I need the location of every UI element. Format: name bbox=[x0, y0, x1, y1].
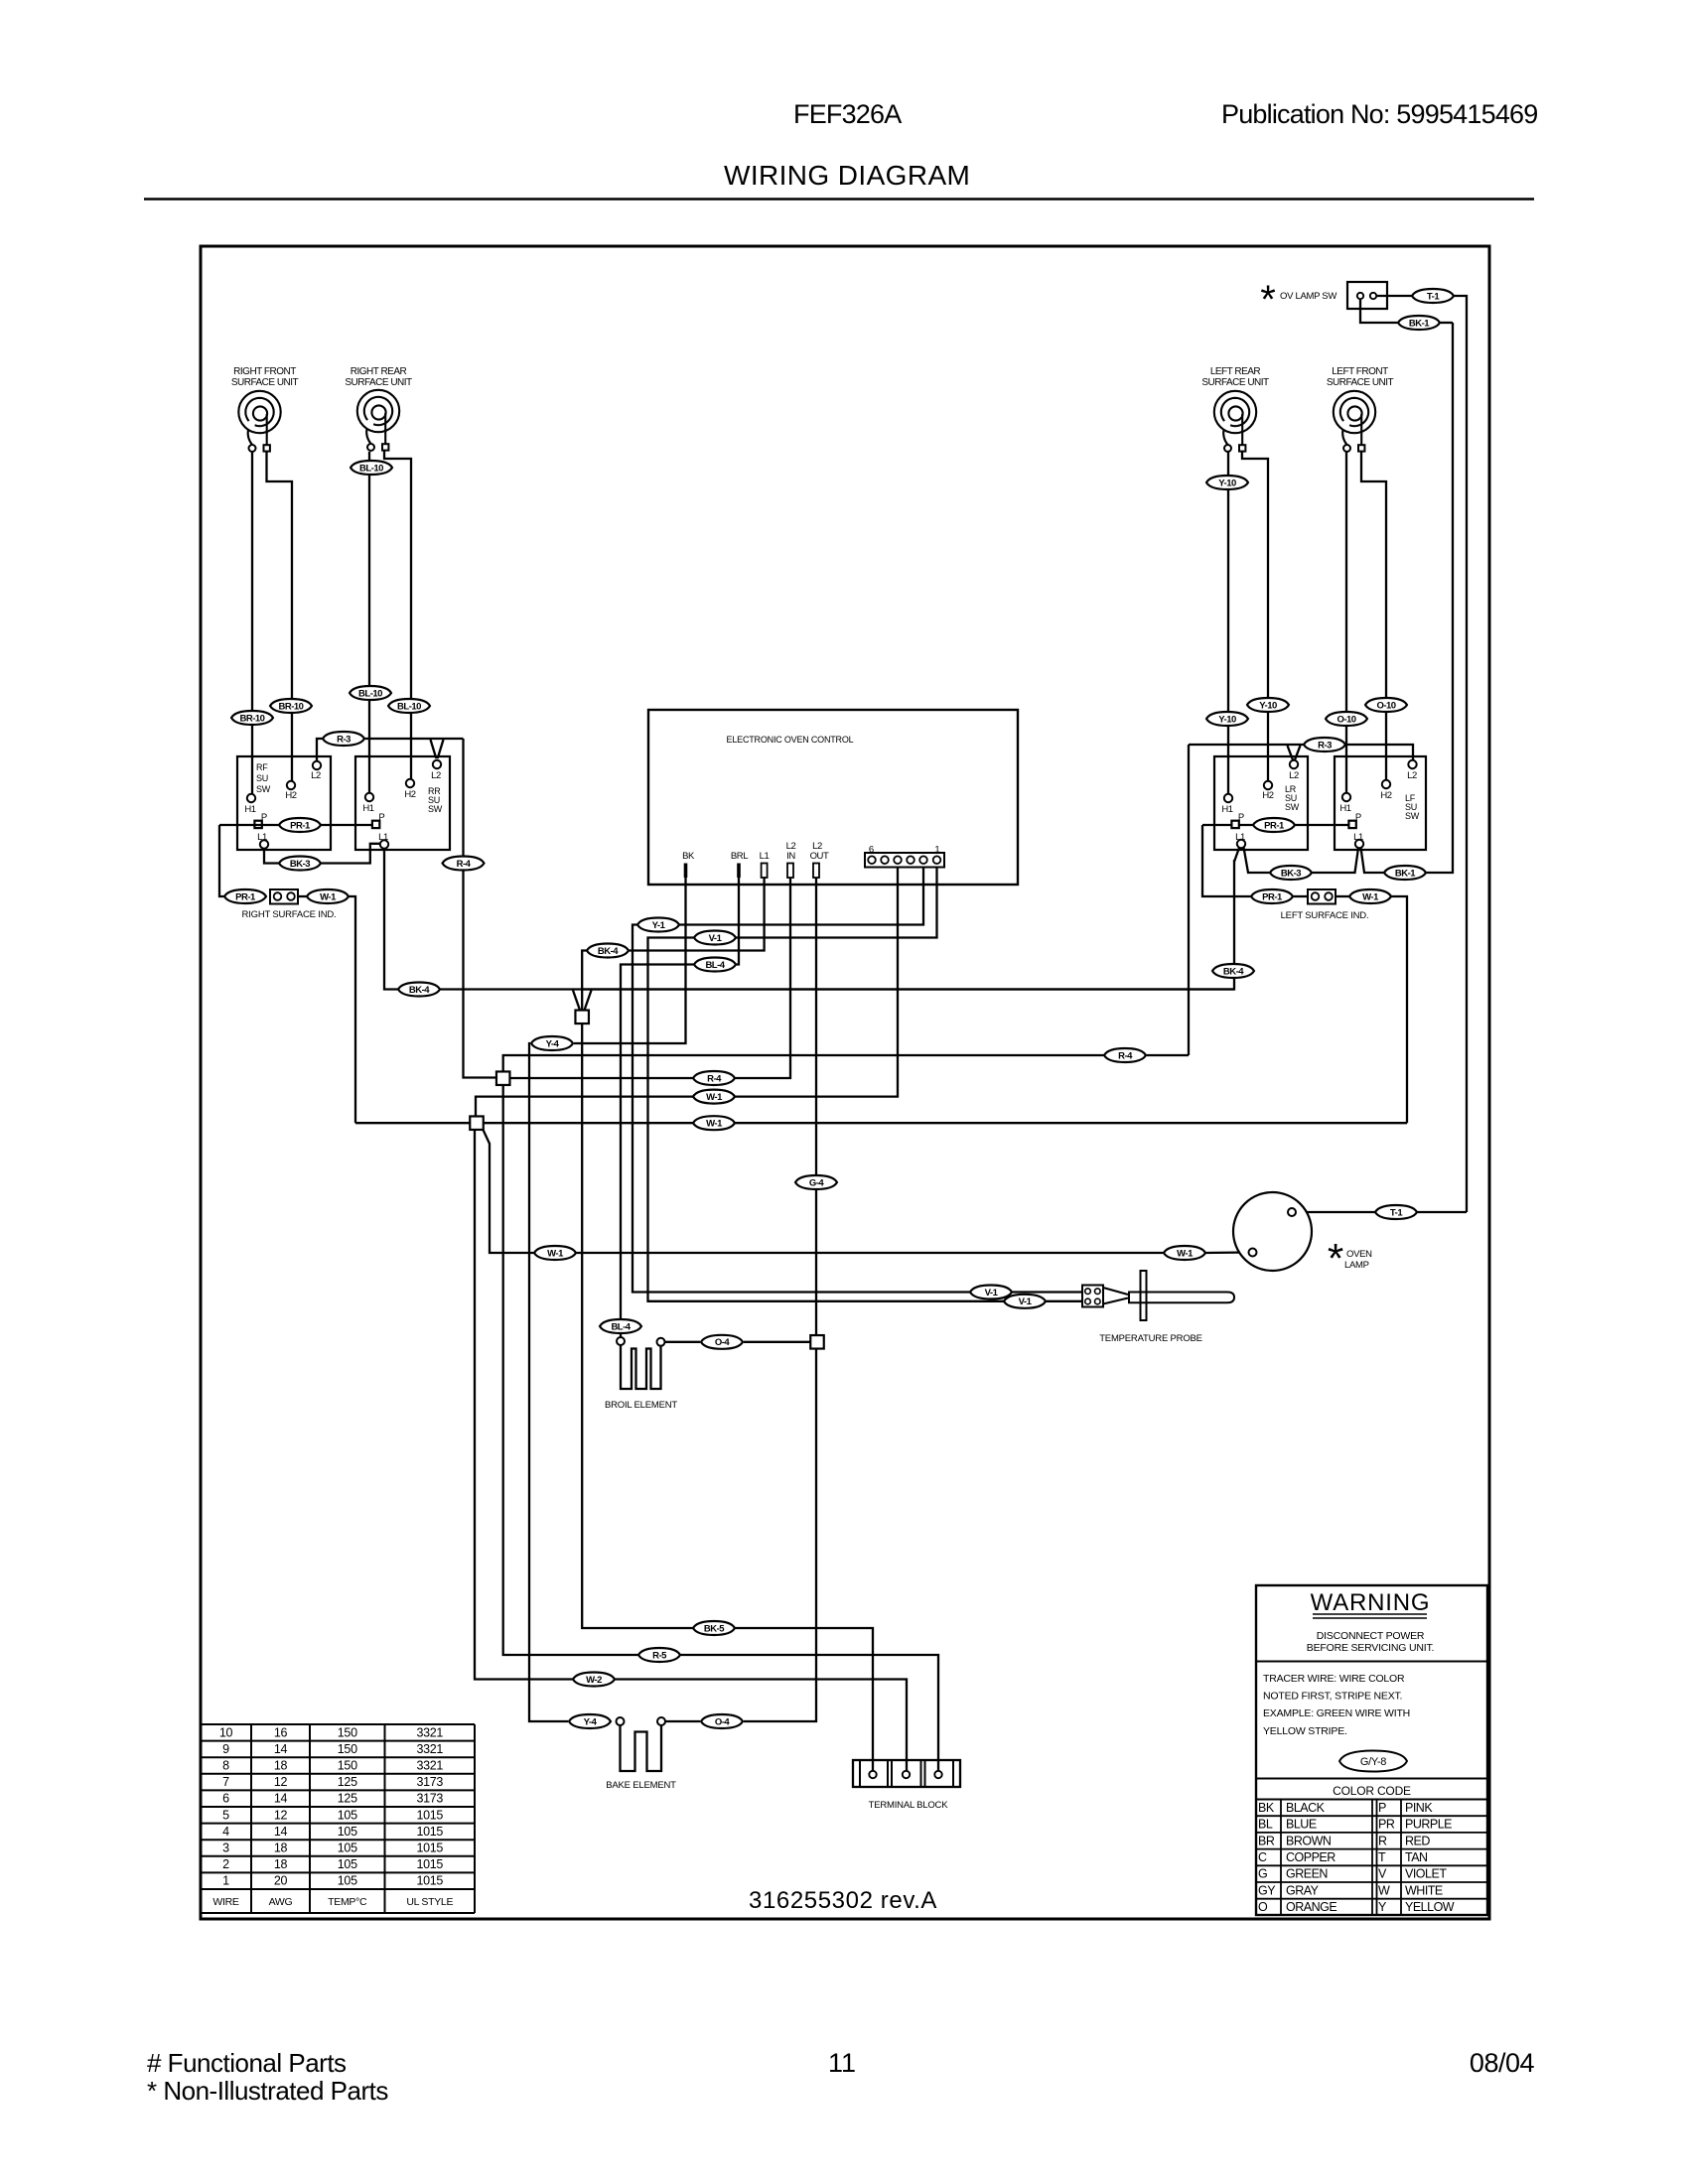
svg-text:VIOLET: VIOLET bbox=[1405, 1867, 1447, 1881]
svg-text:150: 150 bbox=[338, 1742, 357, 1756]
RF switch terminal H2 bbox=[285, 781, 296, 801]
wire label BK-4 bbox=[1212, 964, 1254, 978]
svg-text:PR-1: PR-1 bbox=[235, 891, 256, 902]
svg-text:V-1: V-1 bbox=[709, 933, 723, 944]
svg-text:T-1: T-1 bbox=[1427, 291, 1440, 302]
title underline rule bbox=[144, 198, 1534, 201]
left front surface unit LF coil bbox=[1334, 391, 1375, 452]
wire junction J2 top corner to red crossover bbox=[503, 1055, 1104, 1072]
EOC connector pin circle 6 bbox=[868, 856, 876, 864]
svg-text:H2: H2 bbox=[404, 789, 415, 800]
wire EOC BK down to Y-4 run bbox=[574, 878, 686, 1043]
svg-text:H1: H1 bbox=[362, 803, 373, 814]
wire O-4 to bake right terminal bbox=[665, 1720, 700, 1722]
wire EOC L1 down to BK-4 run bbox=[629, 878, 765, 951]
right surface indicator light bbox=[270, 889, 298, 904]
wire BK-4 to left riser down to junction J1 bbox=[582, 951, 587, 1011]
right rear surface unit RR coil bbox=[357, 390, 399, 451]
svg-text:P: P bbox=[378, 812, 384, 823]
wire LF unit right terminal to H2 bbox=[1361, 451, 1386, 780]
LR switch terminal H2 bbox=[1262, 781, 1273, 801]
wire label BL-4 bbox=[694, 958, 736, 972]
svg-text:PR-1: PR-1 bbox=[1264, 820, 1285, 831]
svg-text:BK-4: BK-4 bbox=[1223, 966, 1244, 977]
RR switch terminal H2 bbox=[404, 779, 415, 800]
RF switch pivot P bbox=[254, 821, 261, 828]
svg-text:08/04: 08/04 bbox=[1470, 2048, 1535, 2078]
wire left surface indicator to W-1 bbox=[1336, 895, 1349, 897]
svg-text:FEF326A: FEF326A bbox=[793, 99, 902, 129]
svg-text:18: 18 bbox=[274, 1857, 288, 1871]
EOC terminal L1 bbox=[762, 864, 768, 879]
LF switch terminal L1 bbox=[1353, 832, 1363, 848]
wire label W-1 bbox=[693, 1090, 735, 1104]
svg-text:1015: 1015 bbox=[416, 1857, 443, 1871]
wire label PR-1 bbox=[1253, 818, 1295, 832]
svg-text:WHITE: WHITE bbox=[1405, 1883, 1443, 1897]
svg-text:SURFACE UNIT: SURFACE UNIT bbox=[1201, 377, 1269, 388]
wire label T-1 bbox=[1375, 1205, 1417, 1219]
label right front surface unit bbox=[231, 366, 299, 388]
svg-text:RED: RED bbox=[1405, 1834, 1430, 1847]
oven lamp terminal right bbox=[1288, 1208, 1296, 1216]
wire oven lamp switch right terminal to T-1 oval bbox=[1377, 295, 1412, 297]
svg-text:PR-1: PR-1 bbox=[1262, 891, 1283, 902]
wire label PR-1 bbox=[224, 889, 266, 903]
wire label W-1 bbox=[1164, 1246, 1205, 1260]
wire left surface indicator chain bbox=[1293, 895, 1307, 897]
svg-text:105: 105 bbox=[338, 1874, 357, 1888]
wire right surface indicator W-1 to vertical riser bbox=[349, 896, 355, 1123]
warning box bbox=[1256, 1585, 1487, 1915]
wire RR unit left terminal to H1 bbox=[368, 452, 370, 793]
svg-text:PINK: PINK bbox=[1405, 1801, 1433, 1815]
EOC connector pin circle 5 bbox=[881, 856, 889, 864]
svg-text:BAKE ELEMENT: BAKE ELEMENT bbox=[606, 1780, 676, 1791]
svg-text:SW: SW bbox=[428, 804, 443, 814]
EOC terminal L2 OUT bbox=[813, 864, 819, 879]
svg-text:IN: IN bbox=[786, 851, 795, 862]
wire red net right vertical R-4 riser bbox=[1188, 745, 1190, 1055]
wire EOC pin V-1 drop bbox=[736, 867, 937, 938]
wire label O-4 bbox=[701, 1714, 743, 1728]
svg-text:SURFACE UNIT: SURFACE UNIT bbox=[1327, 377, 1394, 388]
wire label V-1 bbox=[970, 1286, 1012, 1299]
EOC terminal BRL bbox=[737, 864, 741, 879]
wire label G/Y-8 example bbox=[1339, 1751, 1407, 1772]
svg-text:OUT: OUT bbox=[810, 851, 829, 862]
svg-text:WIRING DIAGRAM: WIRING DIAGRAM bbox=[724, 160, 970, 191]
LR switch terminal L1 bbox=[1235, 832, 1245, 848]
wire red crossover R-4 to right riser bbox=[1146, 1054, 1189, 1056]
svg-text:BEFORE SERVICING UNIT.: BEFORE SERVICING UNIT. bbox=[1307, 1642, 1434, 1654]
svg-text:BL-10: BL-10 bbox=[359, 463, 383, 474]
wire label BK-4 bbox=[398, 983, 440, 997]
label left front surface unit bbox=[1327, 366, 1394, 388]
wire junction J1 down to BK-5 run bbox=[582, 1024, 693, 1628]
wire LR pivot to PR-1 left riser bbox=[1202, 824, 1231, 826]
wire label V-1 bbox=[694, 931, 736, 945]
oven lamp terminal left bbox=[1249, 1249, 1257, 1257]
wire junction J4 left to O-4 broil bbox=[744, 1341, 810, 1343]
wire junction J4 down to bake element run bbox=[744, 1349, 816, 1722]
wire label BL-10 bbox=[351, 461, 392, 475]
svg-text:R-3: R-3 bbox=[1318, 740, 1332, 751]
svg-text:GY: GY bbox=[1258, 1883, 1276, 1897]
svg-text:H1: H1 bbox=[1221, 804, 1232, 815]
wire label Y-10 bbox=[1206, 712, 1248, 726]
svg-text:T-1: T-1 bbox=[1390, 1207, 1403, 1218]
svg-text:SW: SW bbox=[1405, 811, 1420, 821]
svg-text:O-10: O-10 bbox=[1336, 714, 1355, 725]
svg-text:105: 105 bbox=[338, 1808, 357, 1822]
svg-text:L2: L2 bbox=[311, 770, 321, 781]
junction connector J2 (red net) bbox=[496, 1071, 510, 1085]
svg-text:BK: BK bbox=[1258, 1801, 1275, 1815]
svg-text:1015: 1015 bbox=[416, 1874, 443, 1888]
svg-text:L1: L1 bbox=[1353, 832, 1363, 843]
svg-text:20: 20 bbox=[274, 1874, 288, 1888]
tracer wire note bbox=[1263, 1673, 1410, 1737]
EOC terminal L2 IN bbox=[787, 864, 793, 879]
wire label V-1 bbox=[1004, 1295, 1046, 1308]
color code divider bbox=[1256, 1778, 1487, 1780]
wire label T-1 bbox=[1412, 289, 1454, 303]
svg-text:P: P bbox=[1355, 812, 1361, 823]
wire PR-1 riser down to left surface indicator bbox=[1202, 825, 1251, 896]
LF switch terminal H2 bbox=[1380, 780, 1391, 801]
wire V-1 to left riser down to probe lower bbox=[648, 938, 1005, 1301]
wire junction J3 diagonal to oven lamp white branch bbox=[483, 1129, 534, 1253]
svg-text:BR-10: BR-10 bbox=[279, 701, 304, 712]
svg-text:GREEN: GREEN bbox=[1286, 1867, 1328, 1881]
wire LR L1 split right diagonal to BK-3 bbox=[1244, 848, 1271, 874]
svg-text:7: 7 bbox=[222, 1775, 229, 1789]
svg-text:C: C bbox=[1258, 1850, 1267, 1864]
svg-text:6: 6 bbox=[222, 1792, 229, 1806]
oven lamp switch terminal right bbox=[1370, 293, 1376, 299]
svg-text:R-4: R-4 bbox=[457, 859, 472, 870]
svg-text:V: V bbox=[1378, 1867, 1387, 1881]
wire label BK-5 bbox=[693, 1621, 735, 1635]
svg-text:L1: L1 bbox=[1235, 832, 1245, 843]
oven lamp switch terminal left bbox=[1357, 293, 1363, 299]
svg-text:105: 105 bbox=[338, 1842, 357, 1855]
wire label R-4 bbox=[443, 857, 485, 871]
wire junction J3 down to W-2 run bbox=[475, 1130, 573, 1680]
svg-text:3173: 3173 bbox=[416, 1792, 443, 1806]
svg-text:BK-1: BK-1 bbox=[1409, 318, 1430, 329]
electronic oven control box EOC bbox=[648, 710, 1018, 885]
svg-text:P: P bbox=[261, 812, 267, 823]
wire label Y-4 bbox=[569, 1714, 611, 1728]
svg-text:BROWN: BROWN bbox=[1286, 1834, 1332, 1847]
wire BK-4 long horizontal to LR L1 riser bbox=[440, 860, 1234, 990]
LF switch pivot P bbox=[1348, 821, 1355, 828]
svg-text:L1: L1 bbox=[378, 832, 388, 843]
wire EOC pin W-1 drop bbox=[735, 867, 898, 1097]
svg-text:R: R bbox=[1378, 1834, 1387, 1847]
wire label R-3 bbox=[323, 732, 364, 746]
wire white net horizontal bbox=[355, 1122, 470, 1124]
svg-text:BK-3: BK-3 bbox=[290, 859, 310, 870]
svg-text:TERMINAL BLOCK: TERMINAL BLOCK bbox=[869, 1800, 949, 1811]
svg-text:COPPER: COPPER bbox=[1286, 1850, 1336, 1864]
svg-text:NOTED FIRST, STRIPE NEXT.: NOTED FIRST, STRIPE NEXT. bbox=[1263, 1691, 1402, 1703]
wire R-4 oval to junction J2 bbox=[510, 1077, 694, 1079]
svg-text:11: 11 bbox=[828, 2048, 856, 2078]
splice V into junction J1 bbox=[573, 991, 580, 1011]
wire Y-4 to left riser down to bake element bbox=[529, 1043, 568, 1721]
wire label O-10 bbox=[1326, 712, 1367, 726]
svg-text:3321: 3321 bbox=[416, 1759, 443, 1773]
wire label O-4 bbox=[701, 1335, 743, 1349]
svg-text:O-10: O-10 bbox=[1376, 700, 1395, 711]
svg-text:SW: SW bbox=[256, 784, 271, 794]
svg-text:14: 14 bbox=[274, 1825, 288, 1839]
svg-text:14: 14 bbox=[274, 1792, 288, 1806]
svg-text:TEMP°C: TEMP°C bbox=[328, 1896, 367, 1908]
svg-text:R-4: R-4 bbox=[1118, 1050, 1133, 1061]
svg-text:O-4: O-4 bbox=[715, 1716, 731, 1727]
svg-text:RIGHT FRONT: RIGHT FRONT bbox=[233, 366, 296, 377]
wire LF unit left terminal to H1 bbox=[1345, 452, 1347, 793]
wire EOC L2 IN down to R-4 run bbox=[735, 878, 790, 1078]
wire oven lamp switch left terminal to BK-1 oval bbox=[1360, 300, 1398, 323]
svg-text:SURFACE UNIT: SURFACE UNIT bbox=[231, 377, 299, 388]
wire gauge table bbox=[201, 1724, 475, 1913]
svg-text:OV LAMP SW: OV LAMP SW bbox=[1280, 291, 1336, 302]
terminal block body bbox=[853, 1760, 960, 1787]
LF switch terminal L2 bbox=[1407, 760, 1417, 781]
svg-text:PR-1: PR-1 bbox=[290, 820, 311, 831]
wire Y-1 to left riser down to probe upper bbox=[633, 925, 970, 1293]
svg-text:BRL: BRL bbox=[731, 851, 748, 862]
svg-text:PR: PR bbox=[1378, 1818, 1395, 1832]
wire label Y-10 bbox=[1247, 698, 1289, 712]
svg-text:125: 125 bbox=[338, 1792, 357, 1806]
svg-text:H2: H2 bbox=[1262, 790, 1273, 801]
wire BK-3 to LF L1 diagonal bbox=[1312, 848, 1358, 873]
svg-text:BL-10: BL-10 bbox=[358, 688, 382, 699]
svg-text:* Non-Illustrated Parts: * Non-Illustrated Parts bbox=[147, 2076, 388, 2106]
wire EOC L2 OUT down through G-4 to junction J4 bbox=[815, 878, 817, 1335]
wire label W-1 bbox=[307, 889, 349, 903]
wire white net through W-1 east run bbox=[484, 1122, 693, 1124]
EOC terminal BK bbox=[684, 864, 688, 879]
wire RF unit right terminal to H2 bbox=[267, 452, 293, 781]
EOC connector pin circle 1 bbox=[933, 856, 941, 864]
wire BK-1 to oven lamp switch riser bbox=[1426, 323, 1453, 873]
svg-text:BLACK: BLACK bbox=[1286, 1801, 1326, 1815]
svg-text:LAMP: LAMP bbox=[1344, 1260, 1369, 1271]
svg-text:G/Y-8: G/Y-8 bbox=[1360, 1756, 1386, 1768]
wire BL-4 to left riser down to broil element bbox=[621, 965, 694, 1320]
svg-text:2: 2 bbox=[222, 1857, 229, 1871]
wire LF L1 right diagonal to BK-1 bbox=[1361, 848, 1385, 873]
svg-text:R-4: R-4 bbox=[707, 1073, 722, 1084]
svg-text:O-4: O-4 bbox=[715, 1337, 731, 1348]
svg-text:TRACER WIRE: WIRE COLOR: TRACER WIRE: WIRE COLOR bbox=[1263, 1673, 1405, 1685]
svg-text:V-1: V-1 bbox=[985, 1288, 999, 1298]
svg-text:4: 4 bbox=[222, 1825, 229, 1839]
svg-text:YELLOW: YELLOW bbox=[1405, 1900, 1455, 1914]
svg-text:Y-10: Y-10 bbox=[1259, 700, 1277, 711]
wire label PR-1 bbox=[279, 818, 321, 832]
wire RF unit left terminal to H1 bbox=[251, 452, 253, 794]
svg-text:G-4: G-4 bbox=[809, 1177, 825, 1188]
wire label BL-4 bbox=[600, 1319, 641, 1333]
svg-text:16: 16 bbox=[274, 1725, 288, 1739]
color code table bbox=[1256, 1800, 1487, 1916]
wire EOC pin Y-1 drop bbox=[679, 867, 923, 925]
junction connector J3 (white net) bbox=[470, 1116, 484, 1130]
svg-text:PURPLE: PURPLE bbox=[1405, 1818, 1452, 1832]
wire W-2 to right riser down to terminal block bbox=[615, 1680, 907, 1772]
svg-text:H2: H2 bbox=[1380, 790, 1391, 801]
svg-text:V-1: V-1 bbox=[1019, 1297, 1033, 1307]
RF switch terminal L2 bbox=[311, 761, 321, 781]
temperature probe shaft bbox=[1129, 1293, 1234, 1303]
svg-text:W-1: W-1 bbox=[706, 1119, 723, 1130]
wire BK-5 to right riser down to terminal block bbox=[735, 1628, 873, 1771]
svg-text:BL-10: BL-10 bbox=[397, 701, 421, 712]
svg-text:Y: Y bbox=[1378, 1900, 1387, 1914]
wire label R-4 bbox=[1104, 1048, 1146, 1062]
svg-text:R-3: R-3 bbox=[337, 734, 351, 745]
RR switch terminal L2 bbox=[431, 760, 441, 781]
EOC connector pin circle 3 bbox=[907, 856, 914, 864]
wire label BK-1 bbox=[1384, 866, 1426, 880]
svg-text:150: 150 bbox=[338, 1759, 357, 1773]
svg-text:O: O bbox=[1258, 1900, 1268, 1914]
svg-text:L2: L2 bbox=[1289, 770, 1299, 781]
svg-text:1: 1 bbox=[222, 1874, 229, 1888]
svg-text:*: * bbox=[1260, 278, 1276, 322]
wire label BL-10 bbox=[388, 699, 430, 713]
EOC connector pin circle 2 bbox=[919, 856, 927, 864]
label left rear surface unit bbox=[1201, 366, 1269, 388]
svg-text:TEMPERATURE PROBE: TEMPERATURE PROBE bbox=[1099, 1333, 1202, 1344]
svg-text:316255302 rev.A: 316255302 rev.A bbox=[749, 1887, 937, 1914]
svg-text:125: 125 bbox=[338, 1775, 357, 1789]
svg-text:3321: 3321 bbox=[416, 1725, 443, 1739]
wire label W-2 bbox=[573, 1673, 615, 1687]
LF surface unit switch box bbox=[1335, 756, 1426, 850]
svg-text:ELECTRONIC OVEN CONTROL: ELECTRONIC OVEN CONTROL bbox=[727, 735, 854, 745]
bake element terminals bbox=[617, 1717, 625, 1725]
svg-text:12: 12 bbox=[274, 1808, 288, 1822]
wire V-1 to probe connector lower bbox=[1046, 1300, 1082, 1302]
svg-text:AWG: AWG bbox=[269, 1896, 293, 1908]
svg-text:8: 8 bbox=[222, 1759, 229, 1773]
svg-text:3173: 3173 bbox=[416, 1775, 443, 1789]
svg-text:WARNING: WARNING bbox=[1311, 1589, 1431, 1616]
wire LR L1 split left diagonal bbox=[1234, 848, 1239, 862]
wire right surface indicator chain bbox=[298, 895, 307, 897]
svg-text:BK-4: BK-4 bbox=[409, 985, 430, 996]
wire label Y-10 bbox=[1206, 476, 1248, 489]
svg-text:10: 10 bbox=[219, 1725, 233, 1739]
svg-text:L2: L2 bbox=[1407, 770, 1417, 781]
oven lamp switch box bbox=[1347, 282, 1387, 309]
wire R-5 to right riser down to terminal block bbox=[680, 1655, 938, 1771]
RF surface unit switch box bbox=[237, 756, 331, 850]
wire label BR-10 bbox=[270, 699, 312, 713]
wire label R-3 bbox=[1304, 738, 1345, 751]
svg-text:18: 18 bbox=[274, 1842, 288, 1855]
EOC connector pin circle 4 bbox=[894, 856, 902, 864]
svg-text:OVEN: OVEN bbox=[1346, 1249, 1372, 1260]
svg-text:RIGHT SURFACE IND.: RIGHT SURFACE IND. bbox=[242, 909, 337, 920]
svg-text:BK-5: BK-5 bbox=[704, 1623, 725, 1634]
svg-text:LEFT FRONT: LEFT FRONT bbox=[1332, 366, 1388, 377]
wire label R-4 bbox=[693, 1071, 735, 1085]
svg-text:Y-10: Y-10 bbox=[1218, 478, 1236, 488]
warning divider bbox=[1256, 1661, 1487, 1663]
svg-text:18: 18 bbox=[274, 1759, 288, 1773]
wire PR-1 between LR and LF pivots bbox=[1239, 824, 1348, 826]
svg-text:LEFT SURFACE IND.: LEFT SURFACE IND. bbox=[1281, 910, 1369, 921]
svg-text:UL STYLE: UL STYLE bbox=[406, 1896, 453, 1908]
svg-text:BR-10: BR-10 bbox=[240, 713, 265, 724]
wire PR-1 left drop to right surface indicator bbox=[219, 825, 224, 896]
svg-text:6: 6 bbox=[869, 845, 874, 856]
svg-text:G: G bbox=[1258, 1867, 1267, 1881]
splice V at RR L2 bbox=[431, 740, 444, 757]
svg-text:1015: 1015 bbox=[416, 1825, 443, 1839]
wire BK-1 oval top right to riser bbox=[1440, 322, 1453, 324]
wire label BK-3 bbox=[279, 857, 321, 871]
LF switch terminal H1 bbox=[1339, 793, 1350, 814]
svg-text:3: 3 bbox=[222, 1842, 229, 1855]
svg-text:Y-4: Y-4 bbox=[546, 1038, 560, 1049]
wire label W-1 bbox=[534, 1246, 576, 1260]
LR switch terminal H1 bbox=[1221, 794, 1232, 815]
wire label BK-3 bbox=[1270, 866, 1312, 880]
svg-text:W-1: W-1 bbox=[1177, 1248, 1194, 1259]
splice V at LR L2 bbox=[1288, 746, 1301, 760]
wire label Y-1 bbox=[637, 918, 679, 932]
RR switch terminal H1 bbox=[362, 793, 373, 814]
wire white net W-1 to right riser bbox=[735, 1122, 1407, 1124]
wire red net right side R-3 run bbox=[1189, 745, 1413, 760]
LR switch terminal L2 bbox=[1289, 760, 1299, 781]
RR switch pivot P bbox=[372, 821, 379, 828]
svg-text:BL-4: BL-4 bbox=[705, 960, 725, 971]
wire EOC BRL down to BL-4 run bbox=[736, 878, 739, 965]
svg-text:150: 150 bbox=[338, 1725, 357, 1739]
svg-text:1: 1 bbox=[934, 845, 939, 856]
svg-text:P: P bbox=[1238, 812, 1244, 823]
svg-text:RIGHT REAR: RIGHT REAR bbox=[351, 366, 407, 377]
wire oven lamp right terminal to T-1 bbox=[1296, 1211, 1375, 1213]
temperature probe taper bbox=[1103, 1288, 1128, 1295]
svg-text:W-1: W-1 bbox=[320, 891, 337, 902]
svg-text:H1: H1 bbox=[1339, 803, 1350, 814]
svg-text:SW: SW bbox=[1285, 802, 1300, 812]
svg-text:1015: 1015 bbox=[416, 1808, 443, 1822]
wire PR-1 run between RF and RR switch pivots bbox=[219, 824, 372, 826]
svg-text:YELLOW STRIPE.: YELLOW STRIPE. bbox=[1263, 1725, 1347, 1737]
wire label BK-1 bbox=[1398, 316, 1440, 330]
svg-text:W: W bbox=[1378, 1883, 1390, 1897]
svg-text:SU: SU bbox=[256, 773, 268, 783]
svg-text:105: 105 bbox=[338, 1857, 357, 1871]
svg-text:3321: 3321 bbox=[416, 1742, 443, 1756]
junction connector J4 (L2 OUT / broil) bbox=[810, 1335, 824, 1349]
svg-text:Y-10: Y-10 bbox=[1218, 714, 1236, 725]
